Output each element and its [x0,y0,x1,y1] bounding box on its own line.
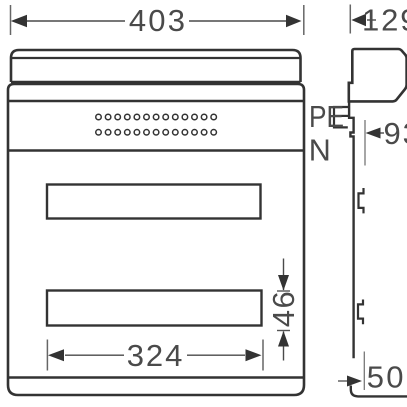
svg-text:50: 50 [367,360,406,395]
svg-text:PE: PE [309,100,344,134]
svg-text:N: N [309,134,331,168]
svg-text:403: 403 [129,3,187,38]
svg-text:93: 93 [384,116,407,151]
svg-text:46: 46 [266,290,301,327]
svg-text:129: 129 [362,3,407,38]
svg-text:324: 324 [127,338,184,373]
